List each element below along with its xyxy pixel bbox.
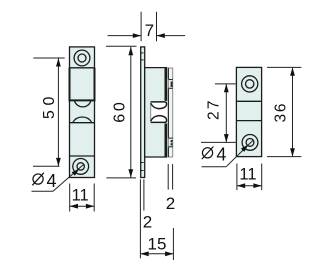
svg-text:4: 4 <box>216 145 226 165</box>
svg-text:4: 4 <box>47 171 57 191</box>
svg-text:7: 7 <box>145 21 154 40</box>
svg-text:2: 2 <box>143 213 152 232</box>
svg-text:15: 15 <box>148 234 167 253</box>
svg-text:11: 11 <box>239 165 256 183</box>
svg-text:2: 2 <box>166 194 175 213</box>
svg-text:36: 36 <box>273 104 290 123</box>
svg-text:11: 11 <box>72 187 89 205</box>
